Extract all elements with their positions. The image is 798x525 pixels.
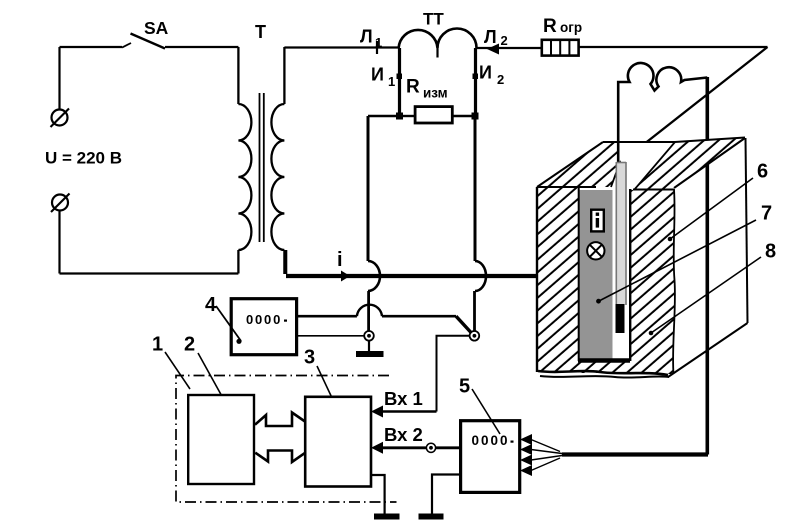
svg-text:2: 2 [501,33,508,48]
wire: output A to diagonal [382,315,456,318]
furnace outline: back edge right [675,138,745,143]
wire: I1 vertical down to hop [367,116,370,261]
furnace outline: front right edge wavy [673,189,675,374]
block 3 (interface) [305,397,371,487]
junction dot I1 row [396,113,403,120]
svg-text:Л: Л [360,27,373,47]
leader line 6 [670,178,753,239]
leader line 5 [472,389,500,434]
furnace outline: front top left [537,186,596,188]
leader line 4 [216,306,241,341]
data link arrow lower [255,451,305,463]
wire hop: I1 over main current wire [368,261,380,291]
pin I2 nub [473,74,479,80]
terminal circle upper [52,110,68,126]
digital indicator 5 body [461,421,520,493]
furnace outline: chamber right edge [629,189,631,361]
svg-text:SA: SA [144,18,169,38]
svg-text:1: 1 [375,35,382,50]
wire: Vx1 horizontal into block 3 [380,410,437,413]
furnace outline: right top face left diagonal [634,142,675,190]
furnace hatch strip below chamber [578,362,631,373]
thermometer rod fill [616,162,627,305]
transformer T secondary winding [271,47,284,274]
wire: I1 below hop to junction [367,291,370,332]
thermometer rod edges [616,162,626,305]
furnace right wall front face [631,189,674,374]
svg-text:Т: Т [255,22,266,42]
current transformer TT middle tick [436,48,438,58]
pin I1 nub [397,74,403,80]
wire: junction 1 to ground [368,341,370,351]
resistor R ogr body [542,40,579,56]
furnace outline: front top right [633,189,674,191]
junction dot I2 row [472,113,479,120]
lamp symbol in chamber [587,242,604,259]
svg-text:2: 2 [497,72,504,87]
svg-text:i: i [337,249,343,271]
furnace outline: side top diagonal [674,138,745,188]
wire: I1 junction to resistor [400,115,416,117]
block 2 (computer) [188,395,254,484]
svg-text:R: R [543,16,557,37]
wire: switch to transformer primary top [165,46,238,48]
wire: source left vertical lower [58,212,60,274]
wire: Vx2 from indicator 5 [380,446,461,449]
furnace tube white [613,190,630,361]
svg-text:1: 1 [152,334,163,356]
current transformer TT primary arcs [399,29,477,48]
furnace outline: front left edge [536,187,538,372]
svg-text:8: 8 [765,241,776,263]
svg-text:изм: изм [423,86,448,101]
thermocouple black tip [616,304,625,333]
furnace body: left wall front face [537,187,579,372]
resistor R izm body [415,107,452,123]
black dot: wire end in furnace chamber [590,271,599,280]
wire: heavy cable from furnace [562,452,708,456]
wire: I2 vertical down to hop [474,116,477,261]
furnace chamber gray [580,190,613,361]
terminal circle lower [52,195,68,211]
indicator window i in chamber [591,210,604,232]
ground G1 [356,351,384,357]
wire: primary bottom [60,272,239,274]
furnace outline: side right edge [746,138,748,323]
wire: indicator 4 output B thin [297,335,364,337]
svg-text:3: 3 [304,347,315,369]
wire: resistor to I2 junction [452,115,475,117]
svg-text:Вх 2: Вх 2 [384,424,423,445]
ground G2 [374,514,400,520]
furnace top slot white [611,141,675,190]
furnace top face left hatched [537,143,673,187]
digital indicator 4 body [231,299,296,355]
switch SA blade [131,34,166,49]
furnace outline: top left diagonal [537,142,603,187]
data link arrow upper [255,413,305,427]
svg-text:И: И [371,65,384,85]
wire: jog left from I1 junction [368,115,400,117]
wire: indicator 5 to ground G3 [432,475,461,515]
svg-text:Л: Л [484,27,497,47]
furnace outline: chamber left edge [578,188,580,361]
furnace outline: side bottom diagonal [668,323,748,377]
leader line 2 [198,353,229,409]
leader line 7 [599,220,756,301]
transformer secondary lead: I1 vertical [398,48,401,114]
current arrow on main wire [341,271,350,282]
svg-text:Вх 1: Вх 1 [384,388,423,409]
leader line 8 [651,257,761,333]
leader line 1 [165,352,190,389]
lead I2 vertical upper [474,48,477,114]
heating element symbol [618,63,707,163]
svg-text:7: 7 [761,203,772,225]
fan arrowheads [520,434,532,445]
svg-text:1: 1 [388,74,395,89]
furnace bottom edge wavy [538,371,668,375]
wire: I2 below hop to junction [473,291,476,331]
thermocouple cable fan into indicator 5 [531,440,560,452]
dash-dot enclosure 1 [176,376,397,503]
furnace chamber floor [578,358,630,363]
wire: source left vertical upper [58,47,60,109]
svg-text:6: 6 [757,161,768,183]
node L2 arrow mark [487,44,499,55]
svg-text:огр: огр [560,20,582,35]
svg-text:И: И [479,63,492,83]
svg-text:0000: 0000 [472,433,510,448]
svg-text:4: 4 [205,294,217,316]
switch SA contact tick [122,43,131,48]
wire hop: output A over I1 wire [357,305,382,316]
svg-text:2: 2 [184,334,195,356]
arrowhead Vx1 [371,406,383,418]
wire: diagonal feed down to furnace electrode [620,47,768,163]
wire: main current heavy wire to furnace [286,274,594,278]
furnace outline: slot mini diagonal [611,162,620,187]
wire: indicator 4 output A [297,315,357,318]
leader line 3 [317,366,341,417]
junction circle 1 [364,331,374,341]
furnace outline: back edge [603,141,675,143]
wire: diagonal into junction 2 [456,316,471,332]
wire: primary top from source to switch [60,46,123,48]
svg-text:ТТ: ТТ [423,10,444,29]
svg-text:0000: 0000 [246,312,282,327]
transformer T core [260,93,264,242]
wire: secondary top to TT [284,46,398,48]
arrowhead Vx2 [371,442,383,454]
node L1 tick [376,41,378,54]
svg-text:U = 220 В: U = 220 В [45,149,122,168]
wire: heavy vertical at furnace right [705,77,709,455]
wire: TT to R ogr [477,47,542,49]
wire: junction 2 left then down to Vx1 [437,336,470,412]
transformer T primary winding [238,47,251,274]
junction symbol on Vx2 [426,443,435,452]
wire hop: I2 over main current wire [475,261,486,291]
svg-text:5: 5 [459,376,470,398]
wire: secondary bottom vertical [285,250,288,274]
wire: R ogr to top right corner [579,46,768,48]
wire: block 3 to ground G2 [371,475,385,514]
junction circle 2 [470,331,480,341]
ground G3 [419,514,444,520]
svg-text:R: R [406,77,420,98]
furnace top face right hatched [634,138,745,190]
